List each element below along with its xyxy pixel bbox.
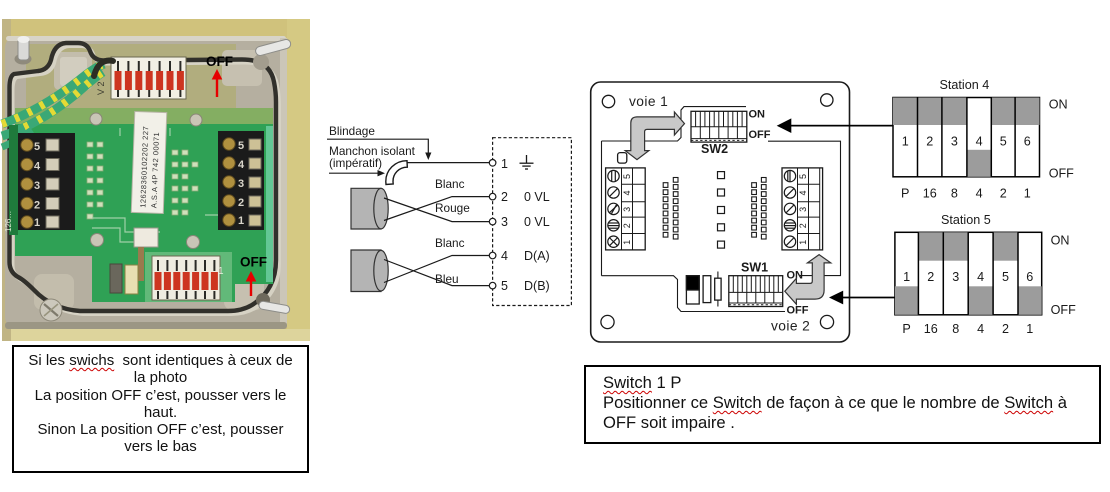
note box: switch instructions (bottom left) [12, 345, 309, 473]
svg-text:OFF: OFF [1051, 303, 1076, 317]
bottom dip switch block [152, 256, 220, 300]
voie 2 gray arrow [785, 255, 831, 305]
digits right block [798, 174, 808, 245]
svg-text:3: 3 [34, 180, 40, 192]
svg-text:Blanc: Blanc [435, 177, 465, 191]
pcb standoff screws [90, 113, 102, 125]
ground symbol [520, 155, 534, 169]
wire Blanc to terminal 2 [384, 197, 489, 221]
green pad bottom dip [145, 252, 232, 302]
svg-text:4: 4 [622, 190, 632, 195]
svg-text:Blanc: Blanc [435, 236, 465, 250]
corner boss top-left [54, 52, 92, 90]
left terminal block [606, 168, 646, 250]
screws left block [608, 170, 619, 247]
svg-text:4: 4 [34, 161, 41, 173]
svg-text:1: 1 [501, 157, 508, 171]
svg-text:voie 2: voie 2 [771, 319, 810, 334]
arrow line station5 to voie2 [843, 297, 895, 299]
svg-text:Rouge: Rouge [435, 201, 470, 215]
svg-text:0 VL: 0 VL [524, 215, 550, 229]
wire Blanc to terminal 4 [384, 256, 489, 283]
svg-text:5: 5 [1002, 270, 1009, 284]
inner contour top-left step [602, 107, 747, 141]
terminal 3 [489, 218, 496, 225]
red arrow bottom [246, 271, 257, 296]
svg-text:2: 2 [1002, 322, 1009, 336]
digits left block [622, 174, 632, 245]
svg-text:Blindage: Blindage [329, 124, 375, 138]
svg-text:5: 5 [622, 174, 632, 179]
sw3 ON gray [943, 232, 968, 260]
svg-text:2: 2 [1000, 187, 1007, 201]
wire shield to terminal 1 [407, 162, 489, 164]
svg-text:1: 1 [238, 215, 244, 227]
inner contour right side [768, 141, 841, 275]
Station 5 switch block [895, 232, 1042, 314]
svg-text:2: 2 [238, 197, 244, 209]
sw5 ON gray [993, 232, 1018, 260]
svg-text:4: 4 [976, 135, 983, 149]
svg-text:0 VL: 0 VL [524, 190, 550, 204]
svg-text:16: 16 [923, 187, 937, 201]
pin header middle column [718, 172, 725, 249]
switch numbers [903, 270, 1033, 284]
mounting hole top-left [602, 95, 614, 107]
left terminal block [18, 133, 75, 230]
silk traces [92, 128, 230, 242]
olive area top-left inside box [26, 44, 236, 110]
svg-text:1: 1 [1026, 322, 1033, 336]
voie 1 gray arrow [625, 112, 684, 160]
sw5 ON gray [991, 98, 1015, 126]
svg-text:V 2: V 2 [96, 81, 106, 95]
svg-text:Bleu: Bleu [435, 272, 459, 286]
svg-text:ON: ON [749, 109, 766, 121]
sw4 OFF gray [967, 150, 991, 177]
svg-text:5: 5 [1000, 135, 1007, 149]
svg-text:3: 3 [952, 270, 959, 284]
svg-text:4: 4 [977, 270, 984, 284]
screw bottom-left [40, 299, 62, 321]
svg-text:4: 4 [501, 249, 508, 263]
svg-text:OFF: OFF [206, 54, 233, 69]
terminal 1 [489, 160, 496, 167]
PCB right mint edge [266, 126, 273, 282]
sw6 OFF gray [1018, 286, 1042, 315]
svg-text:SW1: SW1 [741, 261, 768, 275]
pin header right pair [752, 178, 766, 240]
arrow line station4 to SW2 [791, 125, 893, 127]
svg-text:P: P [901, 187, 909, 201]
inner contour left side [601, 141, 603, 276]
top dip switch block [111, 57, 186, 99]
component resistor with leads [715, 272, 721, 307]
PHOTO-GROUP [2, 19, 310, 341]
Station 4 weight labels [901, 187, 1031, 201]
terminal 4 [489, 252, 496, 259]
svg-text:2: 2 [622, 223, 632, 228]
wire into station 4 [791, 125, 893, 127]
pad near voie1 arrow [618, 153, 627, 164]
terminal strip dashed border [493, 138, 572, 306]
Station 5 weight labels [902, 322, 1033, 336]
gasket groove highlight [13, 46, 280, 314]
terminal 5 [489, 282, 496, 289]
pin header left pair [663, 178, 678, 240]
svg-text:3: 3 [501, 215, 508, 229]
PCB-GROUP [591, 82, 895, 342]
PCB top edge strip [15, 108, 273, 124]
component black capacitor [686, 276, 699, 304]
sw2 ON gray [918, 98, 942, 126]
white label sticker [131, 111, 167, 213]
svg-text:5: 5 [798, 174, 808, 179]
svg-text:OFF: OFF [749, 129, 771, 141]
SW2 dip switch [691, 111, 747, 142]
svg-text:5: 5 [238, 140, 244, 152]
cable 2 body [351, 250, 388, 292]
svg-text:4: 4 [798, 190, 808, 195]
component small rect [703, 276, 711, 303]
right terminal block [218, 131, 264, 230]
wire Bleu to terminal 5 [384, 260, 489, 286]
svg-text:2: 2 [926, 135, 933, 149]
sw2 ON gray [918, 232, 943, 260]
smd pads cluster right [172, 150, 198, 215]
sw1 OFF gray [895, 286, 919, 315]
WIRING-GROUP [327, 124, 571, 306]
svg-text:ON: ON [1051, 234, 1070, 248]
svg-text:1: 1 [798, 240, 808, 245]
cable 1 body [351, 188, 388, 229]
svg-text:1: 1 [1024, 187, 1031, 201]
note box: Switch 1 P (bottom right) [584, 365, 1101, 444]
svg-text:5: 5 [34, 141, 40, 153]
Station 4 switch block [893, 98, 1040, 177]
svg-text:1: 1 [34, 217, 40, 229]
svg-text:16: 16 [924, 322, 938, 336]
svg-text:8: 8 [951, 187, 958, 201]
svg-text:3: 3 [798, 207, 808, 212]
sw4 OFF gray [968, 286, 993, 315]
smd pads cluster left [87, 142, 103, 219]
svg-text:126…: 126… [4, 211, 13, 232]
svg-text:P: P [902, 322, 910, 336]
green yellow wires [2, 61, 113, 147]
svg-text:4: 4 [238, 159, 245, 171]
SW1 dip switch [729, 276, 783, 307]
manchon isolant sleeve [386, 161, 408, 185]
STATIONS-GROUP [791, 78, 1076, 336]
screw top-left [15, 36, 32, 65]
switch numbers [902, 135, 1031, 149]
PCB board outline [591, 82, 850, 342]
sw6 ON gray [1015, 98, 1039, 126]
svg-text:D(B): D(B) [524, 279, 550, 293]
svg-text:6: 6 [1024, 135, 1031, 149]
svg-text:4: 4 [976, 187, 983, 201]
inner contour bottom step [602, 276, 786, 312]
svg-text:2: 2 [34, 200, 40, 212]
right terminal block [782, 168, 823, 250]
left edge silk strip [9, 125, 18, 235]
svg-text:(impératif): (impératif) [329, 156, 382, 170]
svg-text:1: 1 [902, 135, 909, 149]
mounting hole bottom-left [601, 315, 614, 328]
svg-text:4: 4 [977, 322, 984, 336]
svg-text:3: 3 [951, 135, 958, 149]
PCB main board [15, 108, 273, 256]
svg-text:1: 1 [903, 270, 910, 284]
svg-text:2: 2 [927, 270, 934, 284]
svg-text:ON: ON [1049, 98, 1068, 112]
leader arrow to manchon [329, 172, 378, 174]
screw top-right [253, 38, 292, 70]
junction box body [5, 36, 287, 329]
gasket [10, 43, 277, 311]
svg-text:8: 8 [952, 322, 959, 336]
svg-text:OFF: OFF [787, 304, 809, 316]
svg-text:Station 5: Station 5 [941, 213, 991, 227]
terminal 2 [489, 193, 496, 200]
svg-text:SW2: SW2 [701, 142, 728, 156]
wire Rouge to terminal 3 [384, 198, 489, 222]
svg-text:OFF: OFF [240, 255, 267, 270]
svg-text:1: 1 [218, 266, 224, 277]
mounting hole bottom-right [820, 315, 833, 328]
mounting hole top-right [821, 94, 833, 106]
column dividers [918, 232, 1018, 314]
corner boss bottom-left [34, 274, 74, 310]
wire into station 5 [843, 297, 895, 299]
svg-text:Station 4: Station 4 [940, 78, 990, 92]
leader line Blindage [327, 139, 428, 153]
photo background tan [2, 19, 310, 341]
svg-text:D(A): D(A) [524, 249, 550, 263]
svg-text:5: 5 [501, 279, 508, 293]
corner boss bottom-right [224, 274, 264, 310]
svg-text:2: 2 [798, 223, 808, 228]
sw3 ON gray [942, 98, 967, 126]
bottom components [134, 228, 158, 247]
screw bottom-right [256, 293, 290, 314]
svg-text:1: 1 [622, 240, 632, 245]
svg-text:voie 1: voie 1 [629, 94, 668, 109]
corner boss top-right [222, 50, 262, 86]
svg-text:3: 3 [622, 207, 632, 212]
svg-text:2: 2 [501, 190, 508, 204]
red arrow top [212, 69, 223, 97]
svg-text:6: 6 [1026, 270, 1033, 284]
sw1 ON gray [893, 98, 918, 126]
svg-text:OFF: OFF [1049, 166, 1074, 180]
svg-text:3: 3 [238, 178, 244, 190]
column dividers [918, 98, 1016, 177]
screws right block [784, 170, 795, 247]
